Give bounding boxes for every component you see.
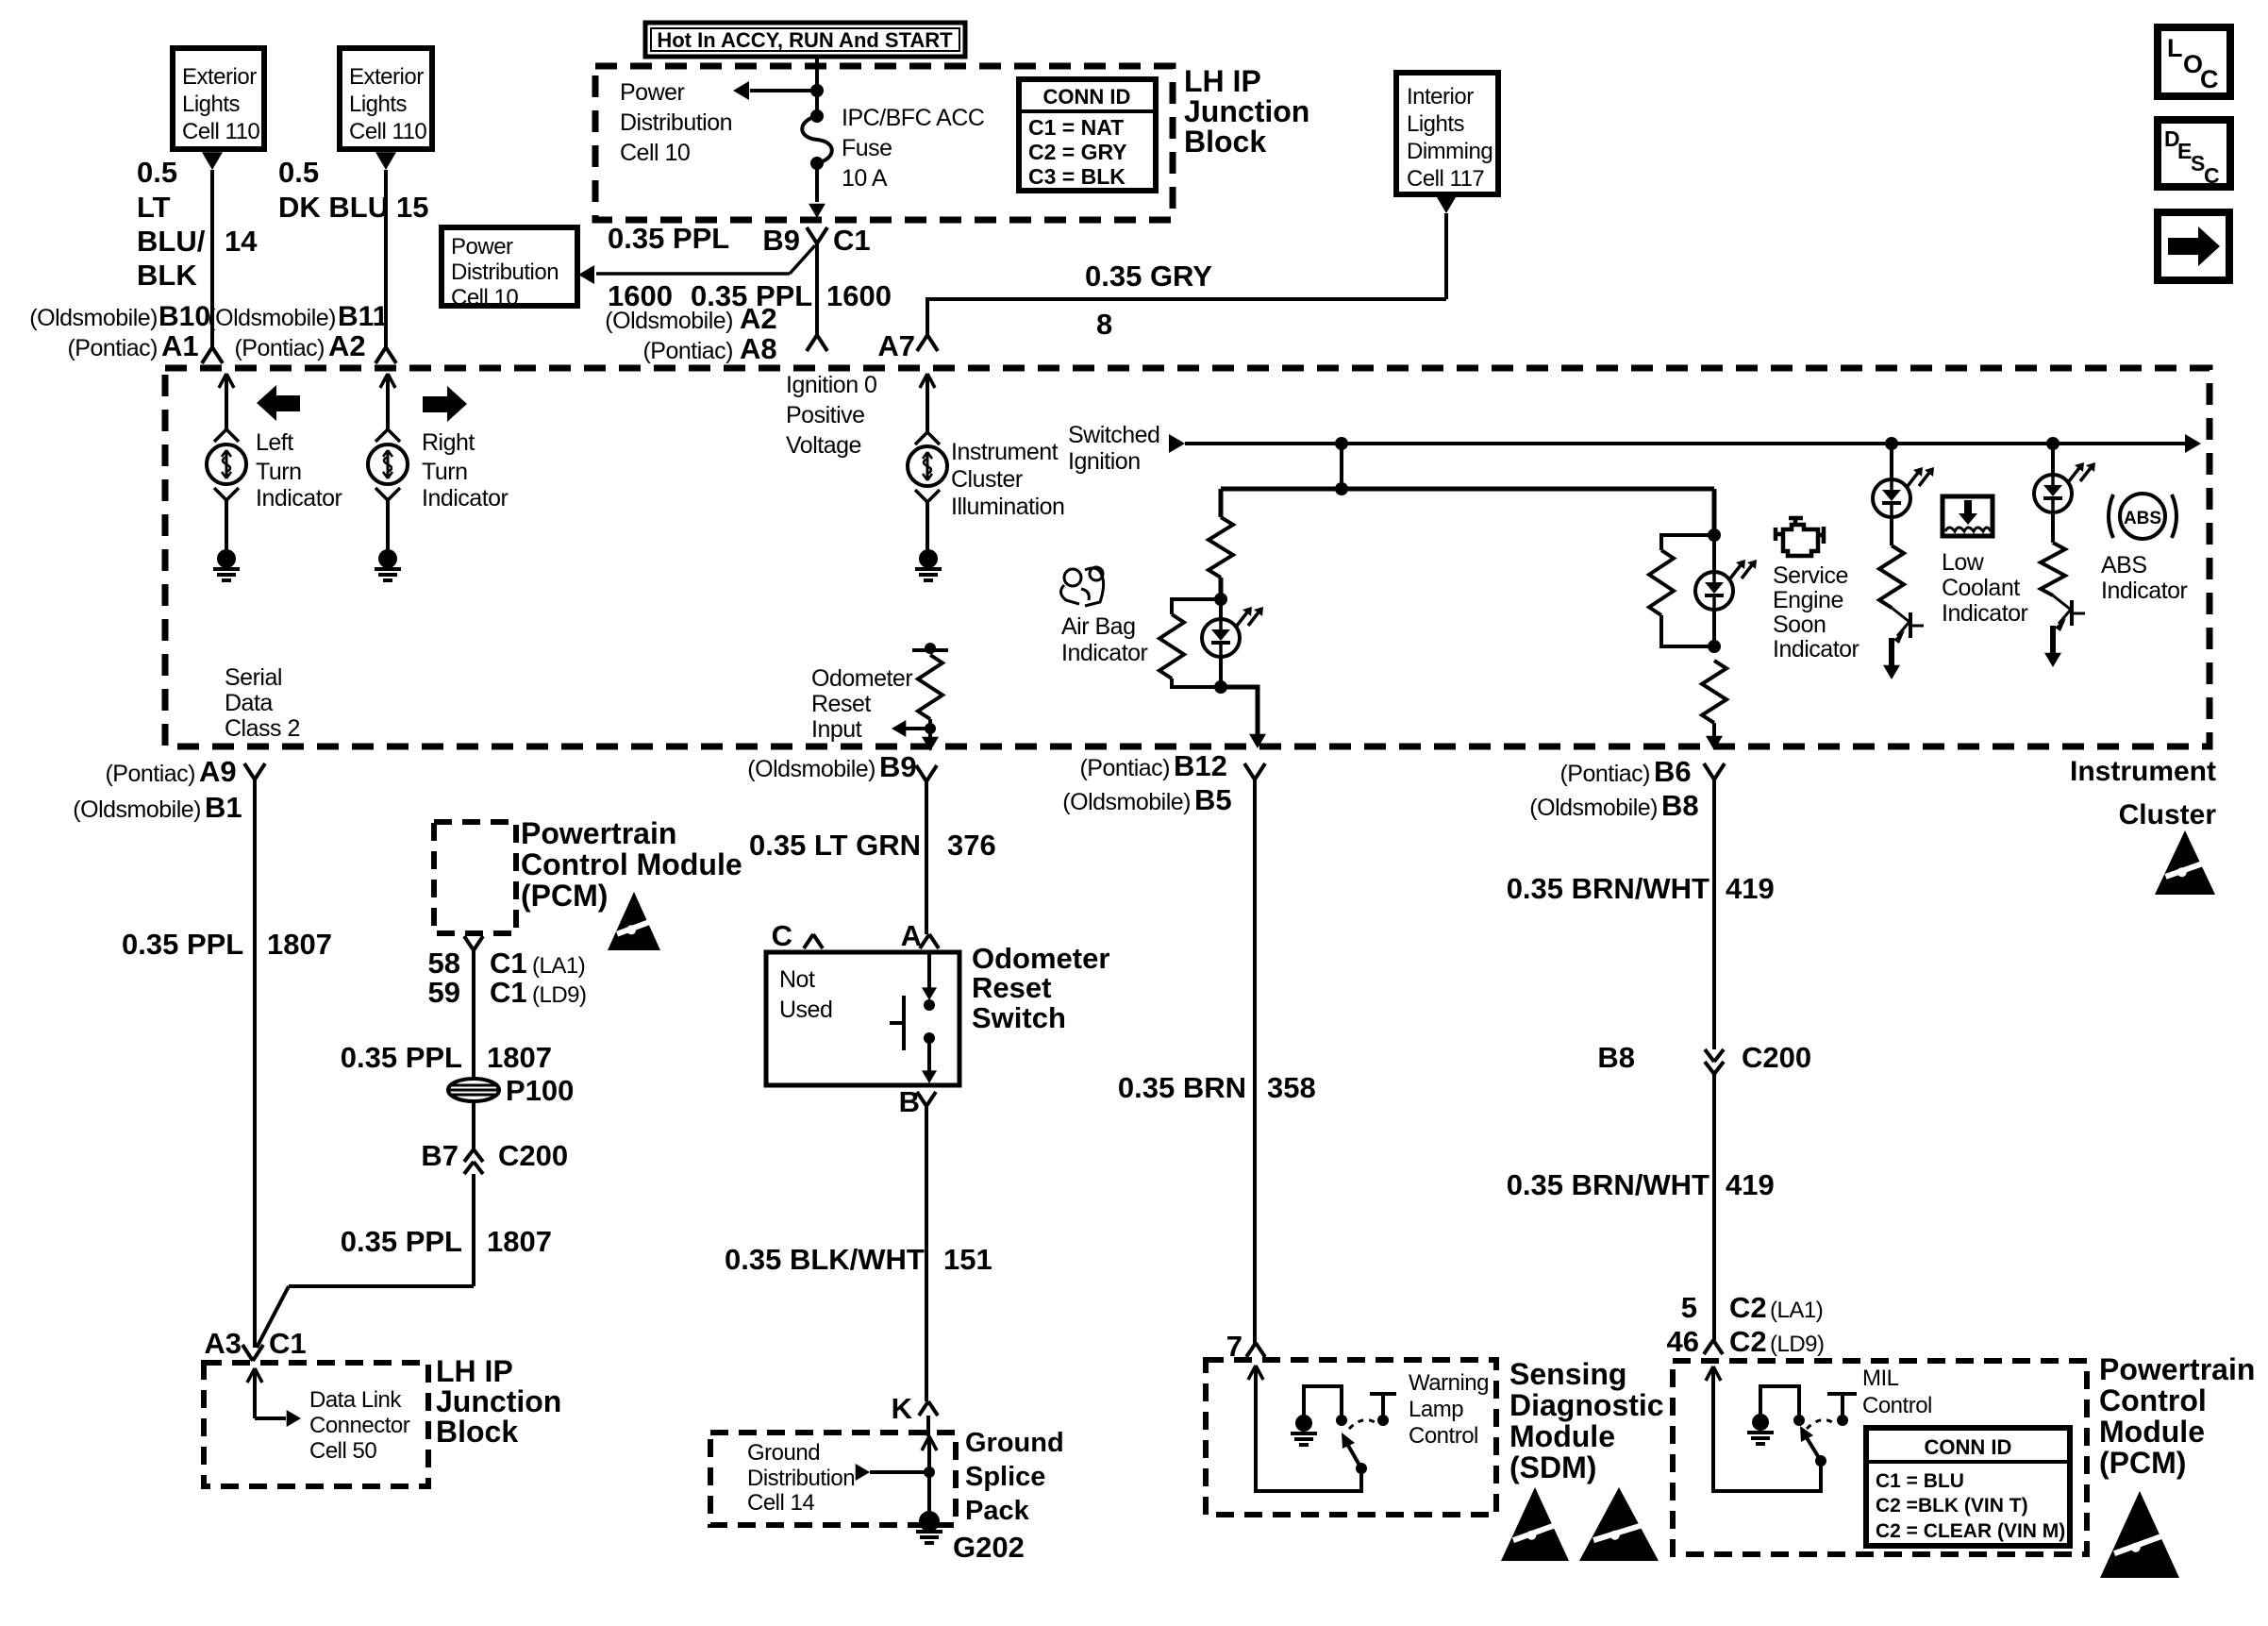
svg-text:Indicator: Indicator	[256, 485, 342, 511]
svg-text:Cluster: Cluster	[2119, 799, 2217, 830]
svg-text:8: 8	[1096, 308, 1112, 341]
svg-text:Class 2: Class 2	[225, 715, 300, 742]
svg-text:Ground: Ground	[965, 1428, 1064, 1458]
svg-text:Exterior: Exterior	[182, 64, 257, 90]
svg-text:ABS: ABS	[2124, 509, 2161, 528]
svg-text:C1: C1	[490, 947, 527, 980]
svg-text:DK BLU: DK BLU	[278, 191, 389, 224]
svg-text:(PCM): (PCM)	[2099, 1446, 2186, 1480]
svg-text:B9: B9	[879, 750, 917, 783]
svg-text:Indicator: Indicator	[1773, 636, 1859, 662]
svg-text:A9: A9	[199, 755, 237, 788]
svg-text:(Oldsmobile): (Oldsmobile)	[29, 305, 158, 331]
svg-text:Switched: Switched	[1068, 422, 1159, 448]
svg-text:Dimming: Dimming	[1407, 139, 1493, 164]
svg-text:A1: A1	[161, 329, 199, 362]
svg-text:C2 = CLEAR (VIN M): C2 = CLEAR (VIN M)	[1876, 1520, 2065, 1542]
svg-text:Input: Input	[811, 716, 862, 743]
svg-text:Cluster: Cluster	[951, 466, 1023, 493]
svg-text:BLU/: BLU/	[137, 225, 206, 258]
svg-text:L: L	[2167, 34, 2183, 62]
svg-text:A3: A3	[204, 1327, 242, 1360]
svg-text:(Oldsmobile): (Oldsmobile)	[73, 796, 201, 823]
svg-text:Distribution: Distribution	[747, 1466, 855, 1491]
svg-text:(Pontiac): (Pontiac)	[234, 335, 325, 361]
svg-text:419: 419	[1726, 1168, 1775, 1201]
svg-text:Right: Right	[422, 429, 475, 456]
svg-text:(Pontiac): (Pontiac)	[67, 335, 158, 361]
svg-text:0.35 GRY: 0.35 GRY	[1085, 260, 1212, 293]
svg-text:Serial: Serial	[225, 664, 282, 691]
svg-text:Hot In ACCY, RUN And START: Hot In ACCY, RUN And START	[657, 28, 953, 52]
svg-text:Switch: Switch	[972, 1001, 1066, 1034]
svg-text:(LD9): (LD9)	[532, 982, 587, 1008]
svg-text:Instrument: Instrument	[951, 439, 1059, 465]
svg-text:1807: 1807	[267, 928, 332, 961]
svg-text:419: 419	[1726, 872, 1775, 905]
svg-text:B9: B9	[762, 224, 800, 257]
svg-text:Indicator: Indicator	[1061, 640, 1148, 666]
svg-text:B1: B1	[205, 791, 242, 824]
svg-text:1600: 1600	[826, 279, 892, 312]
svg-text:Pack: Pack	[965, 1496, 1030, 1526]
svg-text:58: 58	[428, 947, 460, 980]
svg-text:1807: 1807	[487, 1225, 552, 1258]
svg-text:B8: B8	[1661, 789, 1699, 822]
svg-text:(Pontiac): (Pontiac)	[105, 761, 195, 787]
svg-text:Reset: Reset	[811, 691, 871, 717]
svg-text:(PCM): (PCM)	[521, 879, 608, 913]
svg-text:(Oldsmobile): (Oldsmobile)	[747, 756, 876, 782]
svg-text:B: B	[899, 1085, 920, 1118]
svg-text:Used: Used	[779, 997, 832, 1023]
svg-text:B6: B6	[1654, 755, 1692, 788]
svg-text:Instrument: Instrument	[2070, 756, 2216, 787]
svg-text:Control: Control	[1409, 1423, 1478, 1449]
svg-text:C1 = BLU: C1 = BLU	[1876, 1470, 1964, 1492]
svg-text:Turn: Turn	[256, 459, 301, 485]
svg-text:G202: G202	[953, 1531, 1025, 1564]
svg-text:(Oldsmobile): (Oldsmobile)	[1062, 789, 1191, 815]
svg-text:0.35 BRN/WHT: 0.35 BRN/WHT	[1507, 872, 1709, 905]
svg-text:Powertrain: Powertrain	[2099, 1352, 2255, 1386]
svg-text:Warning: Warning	[1409, 1370, 1489, 1396]
svg-text:Data: Data	[225, 690, 273, 716]
svg-text:376: 376	[947, 829, 996, 862]
svg-text:C2: C2	[1729, 1291, 1767, 1324]
svg-text:MIL: MIL	[1862, 1366, 1899, 1391]
svg-text:CONN ID: CONN ID	[1043, 85, 1131, 109]
svg-text:B5: B5	[1194, 783, 1232, 816]
svg-text:1807: 1807	[487, 1041, 552, 1074]
svg-text:A2: A2	[328, 329, 366, 362]
svg-text:(LA1): (LA1)	[532, 953, 585, 979]
svg-text:A2: A2	[740, 302, 777, 335]
svg-text:Not: Not	[779, 966, 815, 993]
svg-text:358: 358	[1267, 1071, 1316, 1104]
svg-text:0.35 BLK/WHT: 0.35 BLK/WHT	[725, 1243, 925, 1276]
svg-text:(Pontiac): (Pontiac)	[1559, 761, 1650, 787]
svg-text:(Oldsmobile): (Oldsmobile)	[208, 305, 336, 331]
svg-text:C2: C2	[1729, 1325, 1767, 1358]
svg-text:0.35 PPL: 0.35 PPL	[122, 928, 243, 961]
svg-text:Lamp: Lamp	[1409, 1397, 1463, 1422]
svg-text:Junction: Junction	[436, 1384, 561, 1418]
svg-text:Powertrain: Powertrain	[521, 816, 676, 850]
svg-text:LH IP: LH IP	[1184, 64, 1261, 98]
svg-text:Diagnostic: Diagnostic	[1509, 1388, 1664, 1422]
svg-text:59: 59	[428, 976, 460, 1009]
svg-text:0.35 BRN/WHT: 0.35 BRN/WHT	[1507, 1168, 1709, 1201]
svg-text:Indicator: Indicator	[2101, 578, 2188, 604]
svg-text:B12: B12	[1174, 749, 1227, 782]
svg-text:Cell 50: Cell 50	[309, 1438, 376, 1464]
svg-text:Block: Block	[436, 1415, 518, 1449]
svg-text:C1 = NAT: C1 = NAT	[1028, 115, 1124, 140]
svg-text:Power: Power	[620, 79, 685, 106]
svg-text:(Oldsmobile): (Oldsmobile)	[1529, 795, 1658, 821]
svg-text:0.5: 0.5	[137, 156, 177, 189]
svg-text:B11: B11	[338, 301, 388, 332]
svg-text:C1: C1	[269, 1327, 307, 1360]
svg-text:Lights: Lights	[349, 92, 408, 117]
svg-text:Block: Block	[1184, 125, 1266, 159]
svg-text:Cell 10: Cell 10	[620, 140, 690, 166]
svg-text:LT: LT	[137, 191, 171, 224]
svg-text:IPC/BFC ACC: IPC/BFC ACC	[842, 105, 985, 131]
svg-text:Power: Power	[451, 234, 513, 260]
svg-text:Distribution: Distribution	[451, 260, 559, 285]
svg-text:B8: B8	[1597, 1041, 1635, 1074]
svg-text:151: 151	[943, 1243, 992, 1276]
svg-text:Odometer: Odometer	[811, 665, 912, 692]
svg-text:K: K	[892, 1392, 913, 1425]
svg-text:Cell 10: Cell 10	[451, 285, 518, 310]
svg-text:14: 14	[225, 225, 258, 258]
svg-text:Reset: Reset	[972, 971, 1051, 1004]
svg-text:Indicator: Indicator	[422, 485, 509, 511]
svg-text:ABS: ABS	[2101, 552, 2147, 578]
svg-text:Voltage: Voltage	[786, 432, 861, 459]
svg-text:Distribution: Distribution	[620, 109, 732, 136]
svg-text:0.5: 0.5	[278, 156, 319, 189]
svg-text:BLK: BLK	[137, 259, 197, 292]
svg-text:Left: Left	[256, 429, 293, 456]
svg-text:LH IP: LH IP	[436, 1354, 513, 1388]
svg-text:15: 15	[396, 191, 428, 224]
svg-text:Module: Module	[2099, 1415, 2205, 1449]
svg-text:CONN ID: CONN ID	[1925, 1435, 2012, 1459]
svg-text:A8: A8	[740, 332, 777, 365]
svg-text:C: C	[772, 919, 792, 952]
svg-text:Junction: Junction	[1184, 94, 1309, 128]
svg-text:46: 46	[1667, 1325, 1699, 1358]
svg-text:Data Link: Data Link	[309, 1387, 402, 1413]
svg-text:(Oldsmobile): (Oldsmobile)	[605, 308, 733, 334]
svg-text:C1: C1	[833, 224, 871, 257]
svg-text:0.35 LT GRN: 0.35 LT GRN	[749, 829, 921, 862]
svg-text:Cell 14: Cell 14	[747, 1490, 814, 1516]
svg-text:Low: Low	[1942, 549, 1985, 576]
svg-text:Ignition 0: Ignition 0	[786, 372, 876, 398]
svg-text:Control Module: Control Module	[521, 847, 742, 881]
svg-text:Control: Control	[2099, 1383, 2207, 1417]
svg-text:C: C	[2200, 65, 2219, 93]
svg-text:Air Bag: Air Bag	[1061, 613, 1135, 640]
svg-text:(Pontiac): (Pontiac)	[642, 338, 733, 364]
svg-text:Interior: Interior	[1407, 84, 1474, 109]
svg-text:Connector: Connector	[309, 1413, 410, 1438]
svg-text:Soon: Soon	[1773, 612, 1826, 638]
svg-text:C3 = BLK: C3 = BLK	[1028, 164, 1126, 189]
svg-text:(Pontiac): (Pontiac)	[1079, 755, 1170, 781]
svg-text:Sensing: Sensing	[1509, 1357, 1626, 1391]
svg-text:B10: B10	[158, 301, 210, 332]
svg-text:Lights: Lights	[1407, 111, 1465, 137]
svg-text:Illumination: Illumination	[951, 494, 1064, 520]
svg-text:Turn: Turn	[422, 459, 467, 485]
svg-text:0.35 PPL: 0.35 PPL	[608, 222, 729, 255]
svg-text:Odometer: Odometer	[972, 942, 1109, 975]
svg-text:5: 5	[1681, 1291, 1697, 1324]
svg-text:Cell 117: Cell 117	[1407, 166, 1484, 192]
svg-text:C200: C200	[498, 1139, 568, 1172]
svg-text:A7: A7	[877, 329, 915, 362]
svg-text:0.35 PPL: 0.35 PPL	[341, 1041, 462, 1074]
svg-text:Engine: Engine	[1773, 587, 1843, 613]
svg-text:Module: Module	[1509, 1419, 1615, 1453]
svg-text:C1: C1	[490, 976, 527, 1009]
svg-text:0.35 PPL: 0.35 PPL	[341, 1225, 462, 1258]
svg-text:Positive: Positive	[786, 402, 865, 428]
svg-text:B7: B7	[421, 1139, 459, 1172]
svg-text:10 A: 10 A	[842, 165, 888, 192]
svg-text:P100: P100	[506, 1074, 574, 1107]
svg-text:Indicator: Indicator	[1942, 600, 2028, 627]
svg-text:C2 = GRY: C2 = GRY	[1028, 140, 1127, 164]
svg-text:Ground: Ground	[747, 1440, 820, 1466]
svg-text:(LA1): (LA1)	[1770, 1298, 1823, 1323]
svg-text:Fuse: Fuse	[842, 135, 892, 161]
svg-text:Control: Control	[1862, 1393, 1932, 1418]
svg-text:Splice: Splice	[965, 1462, 1045, 1492]
svg-text:(LD9): (LD9)	[1770, 1332, 1825, 1357]
svg-text:0.35 BRN: 0.35 BRN	[1118, 1071, 1246, 1104]
svg-text:Cell 110: Cell 110	[182, 119, 259, 144]
svg-text:C: C	[2204, 163, 2220, 188]
svg-text:Exterior: Exterior	[349, 64, 424, 90]
svg-text:C2 =BLK (VIN T): C2 =BLK (VIN T)	[1876, 1495, 2028, 1517]
svg-text:Service: Service	[1773, 562, 1848, 589]
svg-text:Ignition: Ignition	[1068, 448, 1141, 475]
svg-text:C200: C200	[1742, 1041, 1811, 1074]
svg-text:Cell 110: Cell 110	[349, 119, 426, 144]
svg-text:Lights: Lights	[182, 92, 241, 117]
svg-text:Coolant: Coolant	[1942, 575, 2020, 601]
svg-text:(SDM): (SDM)	[1509, 1450, 1596, 1484]
